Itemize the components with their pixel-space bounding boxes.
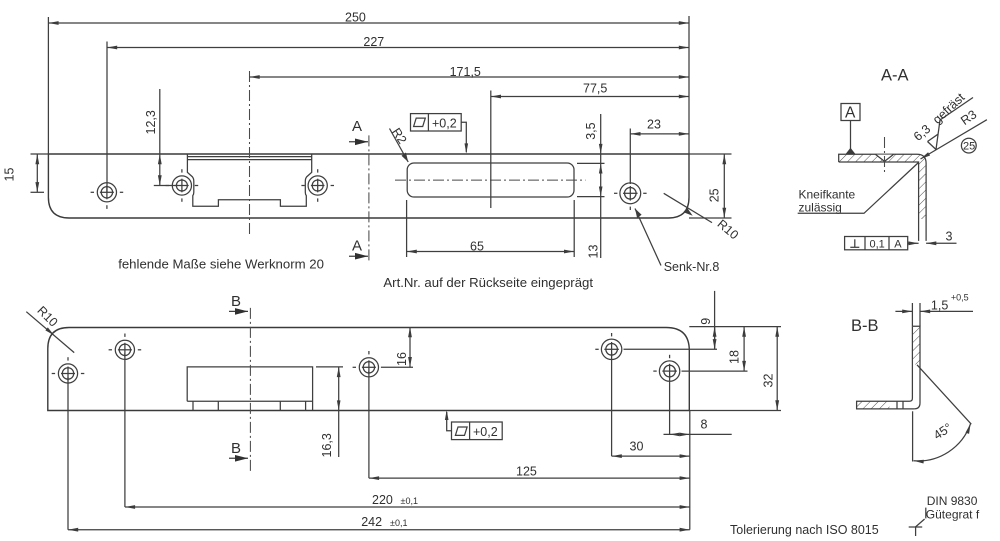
dim 30: [612, 439, 690, 456]
svg-text:65: 65: [470, 239, 484, 253]
dim 45 degrees: [913, 365, 972, 462]
dim 15: [3, 154, 49, 192]
balloon (25): [961, 138, 976, 153]
svg-text:23: 23: [647, 118, 661, 132]
svg-text:+0,2: +0,2: [473, 425, 498, 439]
dim 18: [728, 327, 745, 372]
svg-text:+0,5: +0,5: [951, 292, 969, 302]
dim 16: [395, 327, 410, 367]
dim 25 right side: [689, 154, 732, 218]
svg-text:77,5: 77,5: [583, 81, 607, 95]
svg-text:8: 8: [701, 418, 708, 432]
hole H2 top view: [166, 169, 199, 202]
svg-text:DIN 9830: DIN 9830: [927, 494, 978, 508]
svg-text:Gütegrat f: Gütegrat f: [926, 507, 980, 521]
hole H5 bottom view: [653, 355, 747, 435]
section B-B break ticks: [897, 401, 903, 409]
svg-text:Tolerierung nach ISO 8015: Tolerierung nach ISO 8015: [730, 523, 879, 537]
svg-text:250: 250: [345, 10, 366, 24]
dim 3 (A-A leg thickness): [926, 230, 956, 244]
svg-text:9: 9: [699, 318, 713, 325]
dim 65: [407, 200, 575, 257]
note DIN 9830 Guetegrat f: [909, 494, 980, 536]
dim 227: [107, 35, 689, 192]
latch opening centerline: [395, 179, 586, 181]
note Kneifkante zulaessig: [798, 163, 919, 215]
svg-text:±0,1: ±0,1: [390, 518, 407, 528]
leader R3: [921, 107, 987, 159]
svg-text:Art.Nr. auf der Rückseite eing: Art.Nr. auf der Rückseite eingeprägt: [383, 275, 593, 290]
dim 250: [48, 10, 689, 154]
svg-text:A: A: [894, 239, 902, 251]
svg-text:+0,2: +0,2: [432, 117, 457, 131]
latch opening: [407, 163, 574, 197]
dim 3,5 and dim 13: [577, 114, 605, 259]
svg-text:15: 15: [3, 168, 17, 182]
section A-A profile outline: [839, 154, 926, 241]
flatness frame bottom (+0,2): [445, 410, 502, 440]
section A-A profile hatch: [839, 154, 926, 219]
dim 9: [699, 291, 714, 349]
leader Senk-Nr.8: [635, 209, 719, 275]
svg-text:A: A: [352, 118, 362, 135]
leader R2: [389, 126, 409, 162]
hole H4 top view: [614, 183, 647, 210]
svg-text:Senk-Nr.8: Senk-Nr.8: [664, 260, 720, 274]
svg-text:±0,1: ±0,1: [401, 496, 418, 506]
svg-text:25: 25: [963, 140, 975, 152]
svg-text:18: 18: [728, 350, 742, 364]
svg-text:B: B: [231, 440, 241, 457]
svg-text:171,5: 171,5: [450, 65, 481, 79]
svg-text:B-B: B-B: [851, 317, 879, 335]
hole H1 top view: [91, 183, 124, 209]
svg-text:A: A: [845, 105, 856, 122]
dim 8: [664, 418, 732, 437]
svg-text:3,5: 3,5: [584, 122, 598, 139]
strike keeper box top view: [187, 154, 311, 206]
leader R10 bottom view: [26, 303, 74, 352]
dim 32: [689, 327, 781, 411]
svg-text:32: 32: [762, 374, 776, 388]
svg-text:zulässig: zulässig: [799, 201, 842, 215]
keeper centerline: [249, 71, 251, 236]
svg-text:B: B: [231, 293, 241, 310]
svg-text:1,5: 1,5: [931, 299, 948, 313]
surface roughness symbol 6,3 gefraest: [911, 90, 973, 149]
dim 171,5: [250, 65, 690, 79]
svg-text:16: 16: [395, 352, 409, 366]
hole H3 bottom view: [353, 351, 413, 478]
svg-text:12,3: 12,3: [144, 110, 158, 134]
svg-text:fehlende Maße siehe Werknorm 2: fehlende Maße siehe Werknorm 20: [118, 256, 324, 271]
section A-A countersink notch: [876, 154, 894, 161]
svg-text:30: 30: [630, 439, 644, 453]
plate bottom view outline: [48, 328, 690, 411]
dim 12,3: [144, 89, 176, 186]
hole H4 bottom view: [595, 333, 717, 456]
dim 23: [630, 118, 689, 185]
svg-text:125: 125: [516, 465, 537, 479]
svg-text:13: 13: [587, 245, 601, 259]
dim 125: [369, 465, 690, 479]
svg-text:220: 220: [372, 493, 393, 507]
dim 220 +-0,1: [125, 493, 690, 507]
leader R10 top view: [664, 193, 741, 242]
svg-text:A-A: A-A: [881, 67, 909, 85]
svg-text:16,3: 16,3: [320, 433, 334, 457]
plate top view outline: [48, 154, 689, 218]
section line A-A: [349, 118, 369, 263]
svg-text:227: 227: [363, 35, 384, 49]
dim 16,3: [316, 367, 343, 458]
datum A symbol: [841, 104, 860, 155]
hole H3 top view: [301, 169, 334, 202]
section line B-B: [229, 293, 250, 473]
svg-text:0,1: 0,1: [870, 239, 885, 251]
svg-text:A: A: [352, 238, 362, 255]
section B-B profile outline: [857, 326, 920, 409]
hole H1 bottom view: [52, 357, 85, 530]
dim 1,5 +0,5: [895, 292, 973, 326]
dim 242 +-0,1: [68, 411, 690, 530]
dim 77,5: [491, 81, 689, 208]
svg-text:242: 242: [361, 515, 382, 529]
section B-B profile hatch: [857, 326, 920, 409]
perpendicularity frame 0,1 A: [845, 237, 919, 251]
flatness frame top (+0,2): [411, 114, 469, 154]
svg-text:3: 3: [946, 230, 953, 244]
hole H2 bottom view: [109, 334, 142, 508]
svg-text:25: 25: [708, 188, 722, 202]
section A-A centerline: [884, 137, 886, 172]
keeper back rectangle bottom view: [187, 367, 312, 411]
